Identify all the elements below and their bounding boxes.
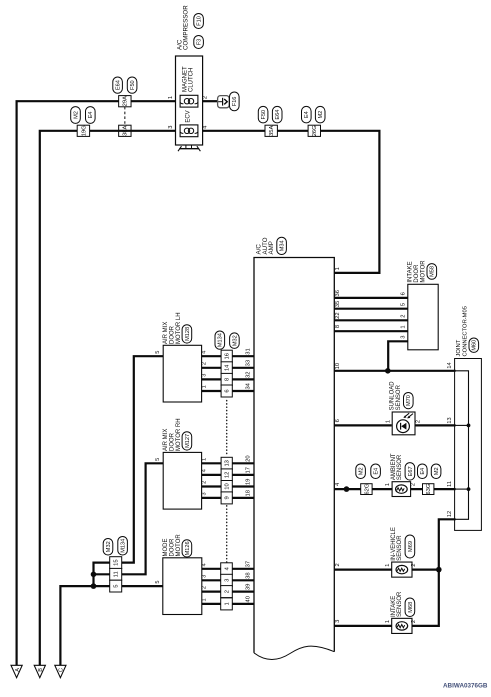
- joint connector strip 15 11 5: [110, 557, 122, 569]
- svg-text:3: 3: [401, 335, 407, 338]
- wire air mix RH 1 to amp 20: [202, 462, 254, 464]
- svg-text:DOOR: DOOR: [414, 264, 420, 283]
- svg-text:2: 2: [411, 564, 417, 567]
- svg-text:SENSOR: SENSOR: [397, 535, 403, 561]
- connector ovals M134 M32 upper: [215, 331, 225, 349]
- svg-text:6: 6: [225, 389, 231, 392]
- svg-text:M2: M2: [73, 111, 79, 119]
- svg-text:2: 2: [203, 96, 209, 99]
- svg-text:MODE: MODE: [163, 539, 169, 557]
- wire mode motor 3 to amp 38: [202, 579, 254, 581]
- svg-text:13: 13: [225, 460, 231, 466]
- svg-text:M134: M134: [121, 539, 127, 553]
- svg-text:AMBIENT: AMBIENT: [391, 453, 397, 480]
- connector oval F10: [194, 14, 204, 29]
- wire amp 36 to intake door motor 6: [334, 297, 408, 299]
- svg-text:22: 22: [335, 312, 341, 318]
- svg-text:INTAKE: INTAKE: [391, 596, 397, 617]
- svg-text:MOTOR: MOTOR: [176, 534, 182, 557]
- svg-text:M34: M34: [280, 240, 286, 251]
- wire joint 5 to mode motor 5: [122, 585, 163, 587]
- connector oval M128: [182, 325, 192, 343]
- svg-text:5: 5: [114, 584, 120, 587]
- compressor case ground: [186, 145, 192, 149]
- svg-text:31: 31: [245, 348, 251, 354]
- svg-text:2: 2: [201, 586, 207, 589]
- wire amp 10 to joint connector 14: [334, 370, 455, 372]
- air mix door motor LH box: [163, 345, 201, 402]
- svg-text:37: 37: [245, 561, 251, 567]
- svg-text:12: 12: [225, 472, 231, 478]
- svg-text:14: 14: [447, 362, 453, 368]
- svg-text:11: 11: [447, 481, 453, 487]
- svg-text:SENSOR: SENSOR: [396, 384, 402, 410]
- junction node in-vehicle: [436, 567, 442, 573]
- wire amp 35 to intake door motor 5: [334, 308, 408, 310]
- connector ovals M32 M134 lower: [103, 539, 113, 556]
- svg-text:E64: E64: [275, 110, 281, 120]
- connector ovals E4 M2 right: [418, 464, 428, 479]
- connector oval M58: [427, 264, 437, 280]
- svg-text:AMP: AMP: [268, 241, 275, 254]
- splice node: [344, 486, 350, 492]
- connector ovals E4 M2: [302, 106, 312, 123]
- junction node pin10: [385, 368, 391, 374]
- svg-text:6: 6: [401, 292, 407, 295]
- svg-text:5: 5: [155, 581, 161, 584]
- dotted line strip upper to middle: [226, 401, 228, 457]
- wire battery feed to magnet clutch pin 1: [17, 101, 176, 665]
- svg-text:DOOR: DOOR: [170, 538, 176, 557]
- svg-text:2: 2: [401, 314, 407, 317]
- svg-text:6: 6: [335, 419, 341, 422]
- svg-text:1: 1: [385, 564, 391, 567]
- svg-text:E4: E4: [88, 112, 94, 119]
- svg-text:M58: M58: [430, 266, 436, 277]
- wire ECV pin 4 to A/C auto amp pin 1: [203, 131, 380, 273]
- svg-text:38: 38: [245, 572, 251, 578]
- wire node to intake sensor 2: [412, 570, 439, 626]
- svg-text:4: 4: [201, 351, 207, 354]
- svg-text:5: 5: [155, 458, 161, 461]
- svg-text:M2: M2: [359, 467, 365, 475]
- wire amp 6 to sunload sensor: [334, 424, 391, 426]
- svg-text:M2: M2: [318, 111, 324, 119]
- svg-text:16: 16: [225, 353, 231, 359]
- wire intake door motor 3 to pin10 node: [388, 341, 408, 371]
- svg-text:1: 1: [401, 325, 407, 328]
- connector oval M34: [277, 237, 287, 254]
- svg-text:F50: F50: [130, 80, 136, 90]
- svg-text:M68: M68: [408, 602, 414, 613]
- svg-text:E4: E4: [304, 111, 310, 118]
- svg-text:3: 3: [201, 374, 207, 377]
- svg-text:DOOR: DOOR: [170, 432, 176, 451]
- intake sensor M68: [392, 618, 412, 633]
- svg-text:26G: 26G: [312, 125, 318, 136]
- svg-text:1: 1: [224, 602, 230, 605]
- svg-text:2: 2: [335, 563, 341, 566]
- wire ambient sensor 2 to joint connector 11: [411, 488, 456, 490]
- wire joint 11 left leg: [94, 573, 110, 575]
- svg-text:JOINT: JOINT: [456, 339, 462, 356]
- joint connector internal bus: [455, 371, 469, 520]
- svg-text:CLUTCH: CLUTCH: [189, 68, 195, 92]
- svg-text:1: 1: [385, 420, 391, 423]
- connector ovals M2 E4 left: [356, 464, 366, 479]
- svg-text:20: 20: [245, 455, 251, 461]
- svg-text:5: 5: [401, 303, 407, 306]
- wire amp 2 to in-vehicle sensor: [334, 568, 391, 570]
- fuse block connector ovals E64 F50: [113, 77, 123, 93]
- air mix door motor RH box: [163, 452, 201, 509]
- wire mode motor 4 to amp 37: [202, 568, 254, 570]
- svg-text:AIR MIX: AIR MIX: [163, 322, 169, 344]
- svg-text:SUNLOAD: SUNLOAD: [390, 381, 396, 411]
- wire air mix LH 3 to amp 32: [202, 378, 254, 380]
- svg-text:29A: 29A: [123, 96, 129, 106]
- svg-text:A: A: [15, 668, 21, 672]
- svg-text:3: 3: [168, 125, 174, 128]
- magnet clutch coil: [180, 95, 198, 107]
- svg-text:1: 1: [385, 620, 391, 623]
- wire junction vertical: [92, 574, 94, 586]
- connector oval E67: [405, 463, 415, 481]
- joint connector strip M134/M32 upper: [221, 350, 232, 362]
- svg-text:F16: F16: [232, 97, 238, 107]
- svg-text:10: 10: [225, 483, 231, 489]
- wire air mix RH 2 to amp 19: [202, 485, 254, 487]
- wire joint 5 through to arrow C: [60, 586, 109, 665]
- svg-text:C: C: [59, 668, 65, 672]
- wire air mix RH pin 5 to joint 11: [122, 463, 164, 574]
- connector oval M68: [405, 598, 415, 617]
- svg-text:1: 1: [335, 267, 341, 270]
- svg-text:M32: M32: [232, 335, 238, 346]
- wire joint 15 left leg: [94, 563, 110, 575]
- wire magnet clutch pin 2 to diode: [203, 100, 218, 102]
- connector 62G: [361, 484, 372, 495]
- connector 63G: [423, 484, 434, 495]
- connector oval M70: [404, 393, 414, 409]
- page arrow C: [55, 665, 66, 677]
- svg-text:8: 8: [335, 325, 341, 328]
- svg-text:M2: M2: [434, 467, 440, 475]
- svg-text:19: 19: [245, 479, 251, 485]
- svg-text:1: 1: [201, 598, 207, 601]
- dotted line strip middle to lower: [226, 506, 228, 563]
- svg-text:17: 17: [245, 467, 251, 473]
- joint bus junction 13: [467, 424, 471, 428]
- svg-text:AIR MIX: AIR MIX: [163, 429, 169, 451]
- sunload sensor M70: [392, 412, 415, 435]
- svg-text:8: 8: [225, 378, 231, 381]
- diode connector F16: [218, 96, 230, 108]
- wire ignition feed to ECV pin 3: [40, 131, 176, 666]
- joint connector strip middle: [221, 457, 232, 469]
- svg-text:13: 13: [447, 417, 453, 423]
- wire amp 8 to intake door motor 1: [334, 330, 408, 332]
- wire amp 4 to ambient sensor: [334, 488, 392, 490]
- svg-text:COMPRESSOR: COMPRESSOR: [183, 5, 190, 50]
- svg-text:2: 2: [201, 481, 207, 484]
- svg-text:F10: F10: [197, 16, 203, 26]
- fusible link 38A: [119, 125, 131, 136]
- in-vehicle sensor M69: [392, 562, 412, 577]
- svg-text:1: 1: [201, 385, 207, 388]
- wire air mix RH 4 to amp 17: [202, 474, 254, 476]
- svg-text:B: B: [38, 668, 44, 672]
- svg-text:MOTOR: MOTOR: [420, 260, 426, 283]
- svg-text:ECV: ECV: [186, 110, 192, 122]
- svg-text:M32: M32: [106, 541, 112, 552]
- wire joint connector 12 to sensor return node: [439, 519, 456, 569]
- svg-text:M127: M127: [185, 434, 191, 448]
- svg-text:62G: 62G: [364, 483, 370, 494]
- svg-text:15: 15: [114, 559, 120, 565]
- svg-text:35A: 35A: [269, 126, 275, 136]
- svg-text:E4: E4: [374, 468, 380, 475]
- wire air mix LH 1 to amp 34: [202, 390, 254, 392]
- svg-text:M128: M128: [185, 327, 191, 341]
- wire air mix LH 2 to amp 33: [202, 367, 254, 369]
- svg-text:MOTOR LH: MOTOR LH: [176, 312, 182, 344]
- connector oval M127: [182, 432, 192, 450]
- connector ovals M2 E4: [71, 107, 81, 124]
- connector oval M69: [405, 535, 415, 558]
- wire amp 3 to intake sensor: [334, 625, 391, 627]
- svg-text:19G: 19G: [81, 125, 87, 136]
- svg-text:9: 9: [225, 496, 231, 499]
- mode door motor box: [163, 558, 202, 615]
- svg-text:M69: M69: [408, 541, 414, 552]
- svg-text:36: 36: [335, 290, 341, 296]
- wire air mix LH pin 5 to joint 15: [122, 356, 164, 562]
- connector 19G: [77, 125, 89, 136]
- svg-text:4: 4: [201, 563, 207, 566]
- connector oval F3: [194, 36, 204, 49]
- svg-text:63G: 63G: [426, 483, 432, 494]
- svg-text:39: 39: [245, 584, 251, 590]
- svg-text:F50: F50: [261, 110, 267, 120]
- wire in-vehicle sensor 2 to node: [412, 568, 439, 570]
- svg-text:2: 2: [411, 483, 417, 486]
- svg-text:3: 3: [224, 579, 230, 582]
- svg-text:1: 1: [201, 458, 207, 461]
- ambient sensor E67: [392, 482, 411, 497]
- svg-text:18: 18: [245, 490, 251, 496]
- A/C auto amp box: [254, 258, 334, 653]
- A/C compressor box: [176, 56, 203, 145]
- svg-text:MAGNET: MAGNET: [182, 66, 188, 92]
- svg-text:SENSOR: SENSOR: [397, 454, 403, 480]
- svg-text:3: 3: [201, 575, 207, 578]
- connector 26G: [308, 125, 320, 136]
- junction node S11: [91, 572, 97, 578]
- connector oval F16: [230, 92, 240, 111]
- svg-text:IN-VEHICLE: IN-VEHICLE: [391, 527, 397, 561]
- svg-text:E64: E64: [116, 80, 122, 90]
- svg-text:M70: M70: [406, 395, 412, 406]
- fuse 29A: [119, 96, 131, 107]
- svg-text:CONNECTOR-M05: CONNECTOR-M05: [462, 306, 468, 356]
- svg-text:12: 12: [447, 511, 453, 517]
- svg-text:1: 1: [385, 483, 391, 486]
- svg-text:2: 2: [224, 590, 230, 593]
- svg-text:M126: M126: [185, 541, 191, 555]
- svg-text:DOOR: DOOR: [170, 325, 176, 344]
- svg-text:35: 35: [335, 301, 341, 307]
- svg-text:40: 40: [245, 596, 251, 602]
- wire mode motor 2 to amp 39: [202, 590, 254, 592]
- svg-text:5: 5: [155, 351, 161, 354]
- joint connector strip lower: [221, 563, 233, 575]
- svg-text:33: 33: [245, 360, 251, 366]
- wire air mix LH 4 to amp 31: [193, 355, 254, 357]
- wire sunload sensor 2 to joint connector 13: [415, 424, 456, 426]
- dashed link fuse 29A to fusible link 38A: [124, 107, 126, 125]
- wire mode motor 1 to amp 40: [202, 603, 254, 605]
- svg-text:1: 1: [168, 96, 174, 99]
- svg-text:10: 10: [335, 363, 341, 369]
- ECV coil: [180, 125, 198, 137]
- junction node S5: [91, 583, 97, 589]
- svg-text:14: 14: [225, 364, 231, 371]
- svg-text:INTAKE: INTAKE: [408, 261, 414, 282]
- svg-text:32: 32: [245, 371, 251, 377]
- wire amp 22 to intake door motor 2: [334, 319, 408, 321]
- svg-text:2: 2: [201, 362, 207, 365]
- page arrow A: [11, 665, 22, 677]
- svg-text:3: 3: [201, 492, 207, 495]
- svg-text:E4: E4: [420, 468, 426, 475]
- svg-text:SENSOR: SENSOR: [397, 591, 403, 617]
- svg-text:3: 3: [335, 620, 341, 623]
- connector oval M126: [182, 540, 192, 557]
- svg-text:F3: F3: [197, 39, 203, 46]
- svg-text:M134: M134: [218, 333, 224, 347]
- fuse ovals F50 E64: [258, 106, 268, 123]
- page arrow B: [34, 665, 45, 677]
- joint bus junction 11: [467, 487, 471, 491]
- svg-text:2: 2: [416, 420, 422, 423]
- svg-text:ABIWA0376GB: ABIWA0376GB: [443, 683, 488, 690]
- intake door motor box: [408, 284, 438, 350]
- svg-text:E67: E67: [408, 466, 414, 476]
- connector oval M60: [469, 338, 479, 352]
- svg-text:34: 34: [245, 382, 251, 389]
- svg-text:2: 2: [411, 620, 417, 623]
- fuse 35A: [265, 125, 277, 136]
- wire air mix RH 3 to amp 18: [202, 497, 254, 499]
- svg-text:M60: M60: [472, 340, 478, 351]
- svg-text:11: 11: [114, 571, 120, 577]
- svg-text:4: 4: [201, 469, 207, 472]
- joint connector box M60: [455, 359, 482, 531]
- svg-text:MOTOR RH: MOTOR RH: [176, 418, 182, 451]
